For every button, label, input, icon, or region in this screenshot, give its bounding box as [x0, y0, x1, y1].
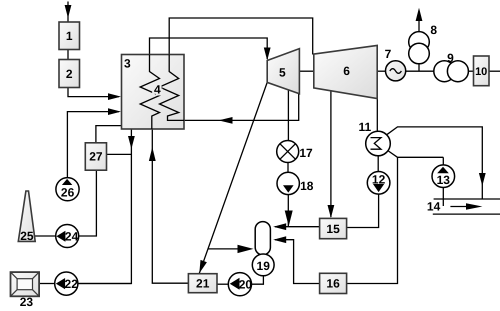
svg-text:25: 25: [20, 229, 34, 243]
svg-text:2: 2: [66, 67, 73, 81]
svg-text:24: 24: [65, 230, 79, 244]
svg-text:27: 27: [89, 149, 103, 163]
svg-text:4: 4: [154, 83, 161, 97]
svg-text:14: 14: [427, 200, 441, 214]
svg-text:1: 1: [66, 29, 73, 43]
svg-text:19: 19: [257, 259, 271, 273]
svg-text:3: 3: [124, 56, 131, 70]
svg-text:17: 17: [299, 146, 313, 160]
svg-text:20: 20: [239, 278, 253, 292]
svg-text:6: 6: [343, 64, 350, 78]
svg-text:22: 22: [65, 277, 79, 291]
svg-text:18: 18: [300, 179, 314, 193]
svg-text:16: 16: [326, 277, 340, 291]
svg-text:9: 9: [447, 51, 454, 65]
svg-text:8: 8: [430, 23, 437, 37]
svg-text:11: 11: [358, 120, 371, 134]
svg-text:26: 26: [61, 185, 75, 199]
svg-text:23: 23: [20, 295, 34, 309]
svg-text:5: 5: [279, 66, 286, 80]
svg-text:13: 13: [437, 173, 451, 187]
svg-text:10: 10: [475, 66, 487, 78]
svg-text:21: 21: [196, 277, 210, 291]
svg-text:12: 12: [372, 172, 386, 186]
svg-text:15: 15: [326, 222, 340, 236]
svg-text:7: 7: [385, 47, 392, 61]
